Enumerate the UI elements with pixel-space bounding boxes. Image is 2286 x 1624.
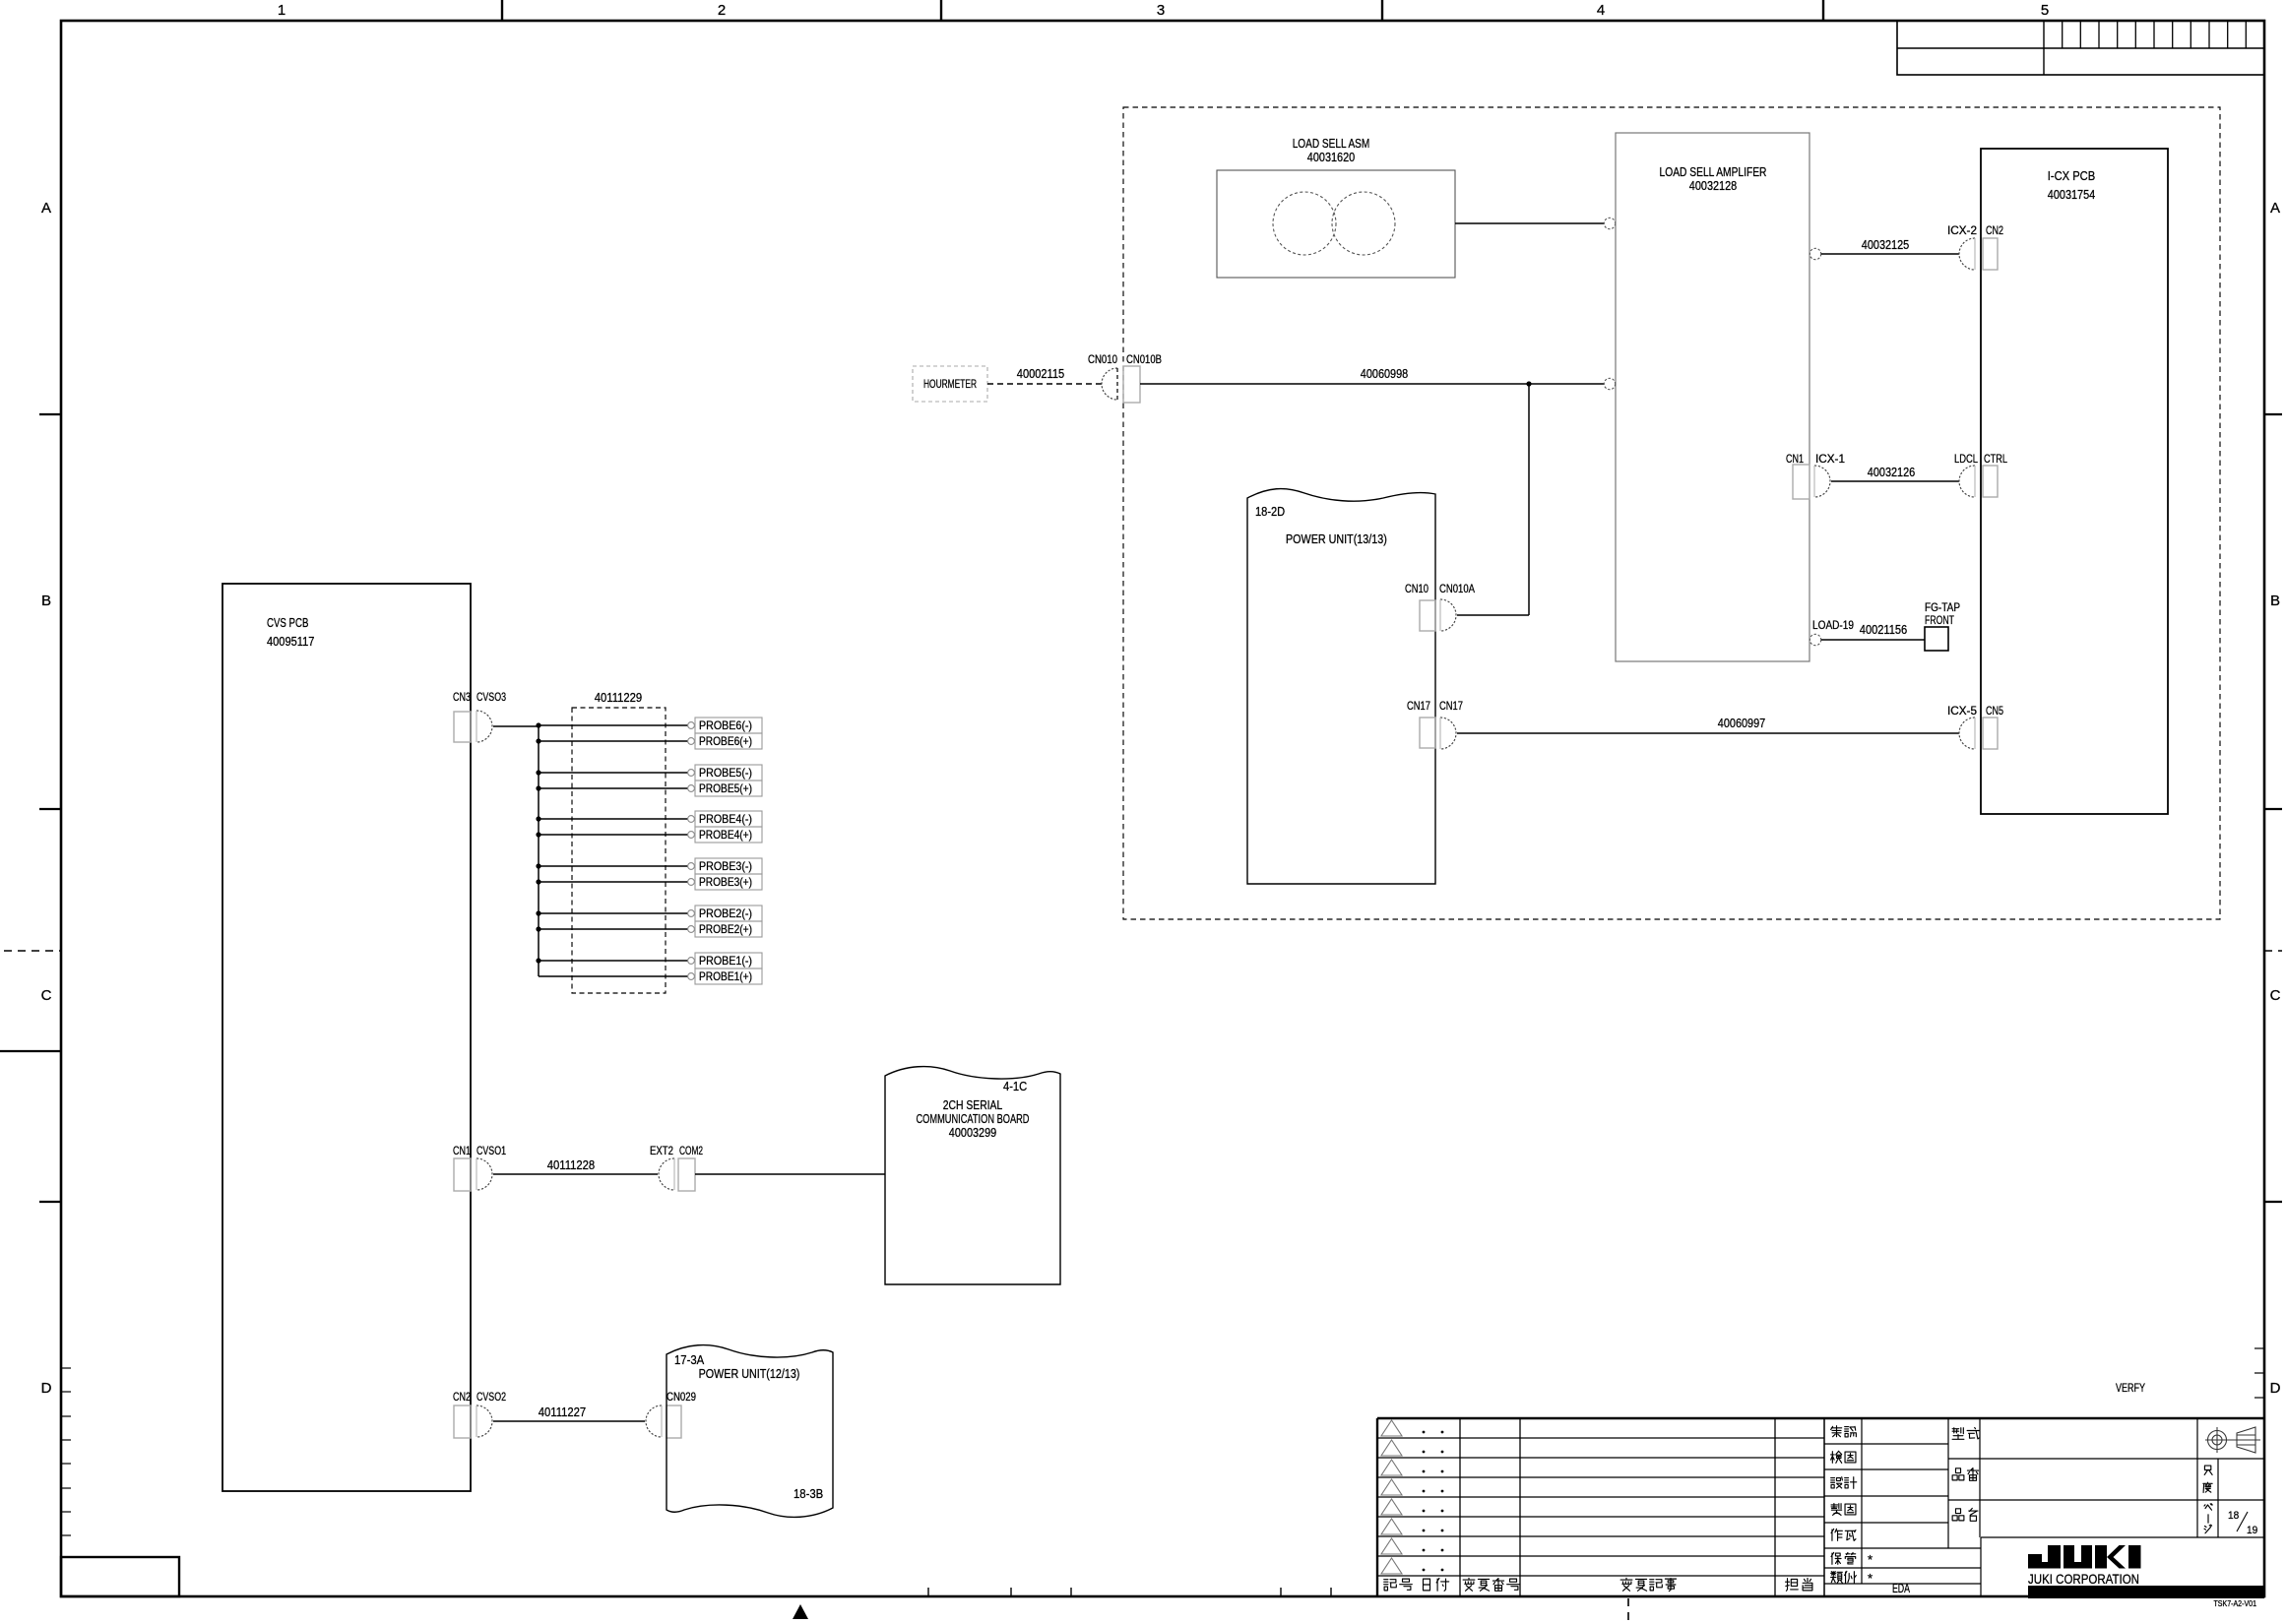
svg-text:40060997: 40060997 [1718, 716, 1765, 730]
svg-text:*: * [1868, 1552, 1873, 1567]
row tick B/C right [2264, 808, 2282, 810]
junction [536, 770, 540, 775]
svg-text:CN17: CN17 [1407, 699, 1430, 713]
svg-text:CN10: CN10 [1405, 582, 1429, 595]
load cell circle left [1273, 192, 1336, 255]
svg-text:PROBE3(-): PROBE3(-) [699, 859, 752, 873]
svg-text:ICX-5: ICX-5 [1947, 704, 1977, 718]
junction [536, 722, 540, 727]
svg-text:ICX-1: ICX-1 [1815, 452, 1845, 466]
revision table columns [1459, 1418, 1461, 1596]
dashed cable box 40111229 [572, 708, 666, 993]
wire 40032125 [1821, 253, 1959, 255]
svg-text:18-2D: 18-2D [1255, 504, 1285, 519]
junction [536, 816, 540, 821]
svg-text:ICX-2: ICX-2 [1947, 223, 1977, 237]
svg-text:CVSO3: CVSO3 [476, 690, 506, 704]
svg-text:40032128: 40032128 [1689, 178, 1737, 193]
power unit 12/13 box [667, 1345, 833, 1518]
junction [536, 879, 540, 884]
connector CVSO1 [476, 1158, 492, 1190]
label 品番 [1952, 1468, 1964, 1480]
wire CVSO3 to probe bus [493, 725, 539, 727]
label 製図 [1831, 1504, 1842, 1516]
wire 40021156 [1821, 639, 1925, 641]
svg-text:LOAD-19: LOAD-19 [1812, 618, 1854, 632]
connector CN10 [1420, 600, 1435, 631]
header 日付 [1424, 1579, 1430, 1591]
svg-text:19: 19 [2247, 1525, 2257, 1536]
svg-text:JUKI CORPORATION: JUKI CORPORATION [2028, 1572, 2139, 1587]
svg-text:1: 1 [278, 2, 286, 19]
probe bus vertical wire [538, 726, 540, 976]
node box PROBE4(+) [695, 827, 762, 843]
junction [536, 832, 540, 837]
connector ICX-1 [1814, 466, 1830, 497]
node box PROBE3(-) [695, 858, 762, 874]
node box PROBE3(+) [695, 874, 762, 890]
svg-text:VERFY: VERFY [2116, 1381, 2145, 1395]
terminal circle PROBE2(+) [688, 926, 695, 933]
svg-text:PROBE6(-): PROBE6(-) [699, 718, 752, 732]
black footer bar [2028, 1586, 2264, 1598]
wire 40111228 [493, 1173, 658, 1175]
svg-text:B: B [2270, 593, 2280, 609]
terminal circle PROBE3(-) [688, 863, 695, 870]
connector CN17 square [1420, 718, 1435, 748]
connector ICX-2 [1959, 238, 1975, 270]
svg-text:18: 18 [2228, 1510, 2239, 1522]
wire to PROBE5(+) [539, 787, 688, 789]
FG-TAP FRONT terminal box [1925, 627, 1948, 651]
svg-text:3: 3 [1157, 2, 1165, 19]
svg-text:CVS PCB: CVS PCB [267, 615, 308, 630]
svg-text:A: A [41, 200, 51, 217]
wire to PROBE4(-) [539, 818, 688, 820]
svg-text:*: * [1868, 1571, 1873, 1586]
JUKI logo [2028, 1545, 2141, 1569]
node box PROBE6(+) [695, 733, 762, 749]
junction [536, 863, 540, 868]
wire 40060997 [1457, 732, 1959, 734]
svg-text:17-3A: 17-3A [674, 1352, 704, 1367]
wire to PROBE3(-) [539, 865, 688, 867]
connector ICX-5 [1959, 718, 1975, 749]
junction [536, 958, 540, 963]
wire to PROBE2(-) [539, 912, 688, 914]
node box PROBE5(+) [695, 781, 762, 796]
column tick 3/4 [1381, 0, 1383, 21]
label 品名 [1952, 1509, 1964, 1521]
row tick A/B left [39, 413, 61, 415]
wire COM2 to serial board [695, 1173, 885, 1175]
connector CN2 (CVS) [454, 1405, 471, 1438]
connector CN5 [1983, 718, 1998, 749]
terminal circle PROBE3(+) [688, 879, 695, 886]
connector CTRL [1983, 466, 1998, 497]
dashed enclosure box (load cell unit) [1123, 107, 2220, 919]
label ー [2207, 1515, 2209, 1523]
label 作成 [1831, 1529, 1842, 1540]
terminal circle PROBE6(+) [688, 738, 695, 745]
svg-text:PROBE4(-): PROBE4(-) [699, 812, 752, 826]
svg-text:40060998: 40060998 [1361, 366, 1408, 381]
connector CN010 [1102, 368, 1117, 400]
svg-text:18-3B: 18-3B [794, 1486, 823, 1501]
connector CN010A [1440, 599, 1456, 631]
svg-text:PROBE2(+): PROBE2(+) [699, 922, 752, 936]
svg-text:40095117: 40095117 [267, 634, 314, 649]
connector CN17 plug [1440, 718, 1456, 749]
wire to PROBE4(+) [539, 834, 688, 836]
svg-text:CN010: CN010 [1088, 352, 1117, 366]
junction [536, 926, 540, 931]
label 承認 [1831, 1426, 1842, 1437]
connector CN2 [1983, 238, 1998, 270]
svg-text:CN17: CN17 [1439, 699, 1463, 713]
svg-text:CN010A: CN010A [1439, 582, 1475, 595]
svg-text:TSK7-A2-V01: TSK7-A2-V01 [2214, 1598, 2257, 1608]
load cell ASM box [1217, 170, 1455, 278]
svg-text:PROBE5(+): PROBE5(+) [699, 781, 752, 795]
page slash [2237, 1512, 2248, 1531]
fold mark dashed right [2264, 950, 2282, 952]
svg-text:CN2: CN2 [1986, 223, 2003, 237]
svg-text:EXT2: EXT2 [650, 1144, 673, 1157]
svg-text:I-CX PCB: I-CX PCB [2048, 168, 2095, 183]
svg-text:CN3: CN3 [453, 690, 471, 704]
node box PROBE2(+) [695, 921, 762, 937]
power unit 13/13 box [1247, 489, 1435, 884]
load cell circle right [1332, 192, 1395, 255]
junction [1526, 381, 1531, 386]
connector CVSO2 [476, 1405, 492, 1437]
connector EXT2 [659, 1158, 674, 1190]
wire 40111227 [493, 1420, 645, 1422]
revision row triangles and date dots [1381, 1420, 1402, 1436]
header 変更番号 [1463, 1578, 1475, 1591]
svg-text:C: C [41, 987, 52, 1004]
revision table rows [1377, 1437, 1824, 1439]
connector CN029 square [667, 1405, 681, 1438]
wire junction to CN010A [1528, 384, 1530, 615]
wire to PROBE1(-) [539, 960, 688, 962]
fold mark dashed left [4, 950, 61, 952]
node box PROBE1(-) [695, 953, 762, 968]
ruler ticks bottom border [927, 1588, 929, 1596]
ruler ticks left border [61, 1367, 71, 1369]
terminal circle PROBE4(-) [688, 816, 695, 823]
junction [536, 738, 540, 743]
node box PROBE6(-) [695, 718, 762, 733]
svg-text:40111228: 40111228 [547, 1157, 595, 1172]
label ジ [2204, 1525, 2212, 1533]
third-angle projection symbol [2205, 1427, 2260, 1453]
part info section lines [1947, 1418, 1949, 1548]
centering mark left [0, 1050, 61, 1052]
node box PROBE4(-) [695, 811, 762, 827]
connector COM2 [678, 1158, 695, 1191]
label 類似 [1831, 1572, 1843, 1584]
node box PROBE2(-) [695, 906, 762, 921]
revision strip table top-right [1897, 21, 2264, 75]
terminal circle PROBE1(+) [688, 973, 695, 980]
svg-text:40031754: 40031754 [2048, 187, 2095, 202]
revision strip small cells [2062, 21, 2064, 48]
label ペ [2204, 1504, 2212, 1510]
svg-text:CTRL: CTRL [1984, 452, 2007, 466]
load sell amplifier box U-amp [1616, 133, 1810, 661]
svg-text:HOURMETER: HOURMETER [923, 377, 977, 391]
CVS PCB box [222, 584, 471, 1491]
wire 40060998 [1140, 383, 1604, 385]
header 記号 [1384, 1580, 1397, 1591]
svg-text:B: B [41, 593, 51, 609]
svg-text:FG-TAP: FG-TAP [1925, 600, 1960, 614]
svg-text:D: D [41, 1380, 52, 1397]
svg-text:40021156: 40021156 [1860, 622, 1907, 637]
svg-text:40002115: 40002115 [1017, 366, 1064, 381]
2ch serial communication board box [885, 1067, 1060, 1284]
svg-text:D: D [2270, 1380, 2281, 1397]
title block outline [1377, 1417, 2264, 1419]
column tick 2/3 [940, 0, 942, 21]
svg-text:CVSO1: CVSO1 [476, 1144, 506, 1157]
centering mark bottom triangle [793, 1604, 808, 1619]
terminal circle PROBE2(-) [688, 910, 695, 917]
svg-text:PROBE4(+): PROBE4(+) [699, 828, 752, 842]
label 度 [2203, 1482, 2212, 1492]
wire to PROBE5(-) [539, 772, 688, 774]
node box PROBE1(+) [695, 968, 762, 984]
svg-text:PROBE1(-): PROBE1(-) [699, 954, 752, 968]
svg-text:PROBE5(-): PROBE5(-) [699, 766, 752, 780]
connector CN1 (amplifier) [1793, 465, 1810, 499]
svg-text:C: C [2270, 987, 2281, 1004]
svg-text:PROBE6(+): PROBE6(+) [699, 734, 752, 748]
connector CN010B [1123, 366, 1140, 403]
connector CN3 [454, 712, 471, 742]
column tick 4/5 [1822, 0, 1824, 21]
header 変更記事 [1620, 1578, 1632, 1591]
row tick C/D right [2264, 1201, 2282, 1203]
row tick C/D left [39, 1201, 61, 1203]
connector CVSO3 [476, 711, 492, 742]
svg-text:40111227: 40111227 [539, 1405, 586, 1419]
svg-text:5: 5 [2041, 2, 2049, 19]
svg-text:PROBE1(+): PROBE1(+) [699, 969, 752, 983]
node box PROBE5(-) [695, 765, 762, 781]
label 設計 [1831, 1477, 1843, 1488]
terminal ring amplifier out [1810, 248, 1820, 259]
terminal circle PROBE1(-) [688, 958, 695, 965]
wire to PROBE2(+) [539, 928, 688, 930]
wire to PROBE6(+) [539, 740, 688, 742]
terminal ring amplifier [1604, 378, 1615, 389]
approval section lines [1861, 1418, 1863, 1584]
svg-text:CN5: CN5 [1986, 704, 2003, 718]
label 検図 [1831, 1451, 1842, 1463]
svg-text:40032125: 40032125 [1862, 237, 1909, 252]
svg-text:CVSO2: CVSO2 [476, 1390, 506, 1404]
svg-text:40032126: 40032126 [1868, 465, 1915, 479]
connector CN1 (CVS) [454, 1158, 471, 1191]
svg-text:LOAD SELL AMPLIFER: LOAD SELL AMPLIFER [1660, 164, 1767, 179]
svg-text:PROBE3(+): PROBE3(+) [699, 875, 752, 889]
I-CX PCB box [1981, 149, 2168, 814]
terminal LOAD-19 [1810, 634, 1820, 645]
svg-text:CN010B: CN010B [1126, 352, 1162, 366]
wire 40032126 [1831, 480, 1959, 482]
wire to PROBE3(+) [539, 881, 688, 883]
label 尺 [2204, 1466, 2212, 1474]
svg-text:40003299: 40003299 [949, 1125, 996, 1140]
terminal ring at amplifier input [1604, 218, 1615, 228]
header 担当 [1786, 1579, 1799, 1592]
svg-text:FRONT: FRONT [1925, 613, 1954, 627]
junction [536, 785, 540, 790]
label 型式 [1952, 1428, 1964, 1440]
svg-text:2CH SERIAL: 2CH SERIAL [943, 1097, 1003, 1112]
junction [536, 910, 540, 915]
ruler ticks right border [2254, 1347, 2264, 1349]
svg-text:EDA: EDA [1892, 1581, 1910, 1595]
terminal circle PROBE6(-) [688, 722, 695, 729]
dashed wire 40002115 [987, 383, 1102, 385]
svg-text:LOAD SELL ASM: LOAD SELL ASM [1293, 136, 1370, 151]
column tick 1/2 [501, 0, 503, 21]
connector LDCL [1959, 466, 1975, 497]
svg-text:40031620: 40031620 [1307, 150, 1355, 164]
hourmeter dashed box [913, 366, 987, 402]
svg-text:CN1: CN1 [453, 1144, 471, 1157]
terminal circle PROBE5(-) [688, 770, 695, 777]
wire to PROBE1(+) [539, 975, 688, 977]
svg-text:PROBE2(-): PROBE2(-) [699, 906, 752, 920]
svg-text:2: 2 [718, 2, 726, 19]
svg-text:COMMUNICATION BOARD: COMMUNICATION BOARD [917, 1111, 1030, 1126]
svg-text:4: 4 [1597, 2, 1605, 19]
fold mark dashed bottom [1627, 1598, 1629, 1624]
svg-text:A: A [2270, 200, 2280, 217]
terminal circle PROBE4(+) [688, 832, 695, 839]
svg-text:CN029: CN029 [667, 1390, 696, 1404]
svg-text:LDCL: LDCL [1954, 452, 1978, 466]
svg-text:POWER UNIT(12/13): POWER UNIT(12/13) [699, 1366, 800, 1381]
terminal circle PROBE5(+) [688, 785, 695, 792]
row tick A/B right [2264, 413, 2282, 415]
svg-text:CN1: CN1 [1786, 452, 1804, 466]
svg-text:40111229: 40111229 [595, 690, 642, 705]
corner block bottom-left [61, 1557, 179, 1596]
svg-text:COM2: COM2 [679, 1144, 703, 1157]
wire to PROBE6(-) [539, 724, 688, 726]
wire load cell to amplifier [1455, 222, 1604, 224]
label 保管 [1831, 1552, 1841, 1564]
svg-text:4-1C: 4-1C [1003, 1079, 1027, 1093]
svg-text:CN2: CN2 [453, 1390, 471, 1404]
row tick B/C left [39, 808, 61, 810]
connector CN029 plug [646, 1405, 662, 1437]
svg-text:POWER UNIT(13/13): POWER UNIT(13/13) [1286, 531, 1387, 546]
